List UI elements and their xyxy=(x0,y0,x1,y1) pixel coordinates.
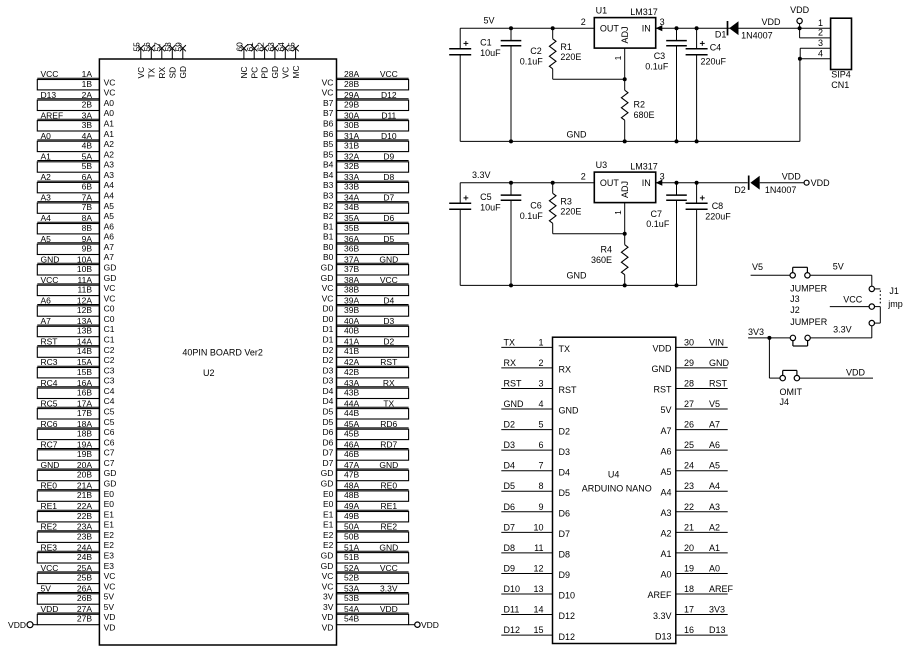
svg-text:42B: 42B xyxy=(344,367,359,377)
svg-text:D3: D3 xyxy=(323,376,334,386)
svg-text:D3: D3 xyxy=(559,447,571,457)
svg-text:R2: R2 xyxy=(634,100,646,110)
svg-text:VDD: VDD xyxy=(846,367,866,377)
svg-text:RST: RST xyxy=(504,379,523,389)
svg-text:VD: VD xyxy=(104,623,116,633)
svg-text:A1: A1 xyxy=(709,543,720,553)
svg-text:64: 64 xyxy=(276,42,286,52)
svg-text:D10: D10 xyxy=(504,584,521,594)
svg-text:C5: C5 xyxy=(104,407,115,417)
svg-text:D8: D8 xyxy=(383,172,394,182)
svg-text:3A: 3A xyxy=(82,110,93,120)
svg-text:VDD: VDD xyxy=(811,178,831,188)
svg-text:10uF: 10uF xyxy=(480,202,501,212)
svg-text:A5: A5 xyxy=(41,234,52,244)
svg-text:E1: E1 xyxy=(323,509,334,519)
svg-text:29A: 29A xyxy=(344,90,359,100)
svg-text:25B: 25B xyxy=(77,573,92,583)
svg-text:33B: 33B xyxy=(344,182,359,192)
svg-text:D5: D5 xyxy=(504,481,516,491)
svg-text:RD7: RD7 xyxy=(380,440,397,450)
svg-text:B7: B7 xyxy=(323,108,334,118)
svg-text:A4: A4 xyxy=(41,213,52,223)
svg-text:E0: E0 xyxy=(104,499,115,509)
svg-text:RX: RX xyxy=(157,66,167,78)
svg-text:E3: E3 xyxy=(104,561,115,571)
svg-text:VDD: VDD xyxy=(652,344,672,354)
svg-text:GND: GND xyxy=(504,399,525,409)
svg-text:RC5: RC5 xyxy=(41,398,58,408)
svg-text:RE1: RE1 xyxy=(381,501,398,511)
svg-text:22: 22 xyxy=(684,502,694,512)
svg-text:RE2: RE2 xyxy=(381,522,398,532)
svg-text:R1: R1 xyxy=(560,42,572,52)
svg-text:47A: 47A xyxy=(344,460,359,470)
svg-text:16: 16 xyxy=(684,625,694,635)
svg-text:GD: GD xyxy=(321,479,334,489)
svg-text:40PIN BOARD Ver2: 40PIN BOARD Ver2 xyxy=(182,347,263,357)
svg-text:6B: 6B xyxy=(82,182,93,192)
svg-text:D2: D2 xyxy=(559,426,571,436)
svg-text:47B: 47B xyxy=(344,470,359,480)
svg-text:D12: D12 xyxy=(559,611,576,621)
svg-text:29B: 29B xyxy=(344,99,359,109)
svg-text:RST: RST xyxy=(559,385,578,395)
svg-text:RST: RST xyxy=(654,385,673,395)
svg-text:A0: A0 xyxy=(660,570,671,580)
svg-text:jmp: jmp xyxy=(887,299,903,309)
svg-text:VC: VC xyxy=(136,67,146,79)
svg-text:3.3V: 3.3V xyxy=(472,170,491,180)
svg-text:B6: B6 xyxy=(323,129,334,139)
svg-text:VDD: VDD xyxy=(41,604,59,614)
svg-text:VCC: VCC xyxy=(41,69,59,79)
svg-text:D13: D13 xyxy=(41,90,57,100)
svg-text:D8: D8 xyxy=(504,543,516,553)
svg-text:D6: D6 xyxy=(323,437,334,447)
svg-text:D13: D13 xyxy=(655,631,672,641)
svg-text:D11: D11 xyxy=(381,110,396,120)
svg-text:C2: C2 xyxy=(104,345,115,355)
svg-text:PC: PC xyxy=(249,67,259,79)
svg-text:MC: MC xyxy=(291,65,301,78)
svg-text:53A: 53A xyxy=(344,584,359,594)
svg-text:29: 29 xyxy=(684,358,694,368)
svg-text:GD: GD xyxy=(104,273,117,283)
svg-text:49A: 49A xyxy=(344,501,359,511)
svg-text:20B: 20B xyxy=(77,470,92,480)
svg-text:22A: 22A xyxy=(77,501,92,511)
svg-text:OUT: OUT xyxy=(600,178,620,188)
svg-text:GND: GND xyxy=(379,460,398,470)
svg-text:GND: GND xyxy=(379,254,398,264)
svg-text:A2: A2 xyxy=(660,529,671,539)
svg-text:JUMPER: JUMPER xyxy=(790,317,828,327)
svg-text:26B: 26B xyxy=(77,593,92,603)
svg-text:C4: C4 xyxy=(710,43,722,53)
svg-text:VDD: VDD xyxy=(762,17,782,27)
svg-text:A7: A7 xyxy=(104,252,115,262)
svg-text:45B: 45B xyxy=(344,429,359,439)
svg-text:D5: D5 xyxy=(323,417,334,427)
svg-text:C0: C0 xyxy=(104,314,115,324)
svg-text:GD: GD xyxy=(321,561,334,571)
svg-text:IN: IN xyxy=(642,178,651,188)
svg-text:VDD: VDD xyxy=(421,620,439,630)
svg-text:42A: 42A xyxy=(344,357,359,367)
svg-text:1: 1 xyxy=(818,18,823,28)
svg-text:19: 19 xyxy=(684,564,694,574)
svg-text:0.1uF: 0.1uF xyxy=(645,61,669,71)
svg-text:3.3V: 3.3V xyxy=(380,584,398,594)
svg-text:B0: B0 xyxy=(323,242,334,252)
svg-text:18A: 18A xyxy=(77,419,92,429)
svg-text:21B: 21B xyxy=(77,490,92,500)
svg-text:D10: D10 xyxy=(559,591,576,601)
svg-text:220E: 220E xyxy=(560,52,581,62)
svg-text:52B: 52B xyxy=(344,573,359,583)
svg-text:A5: A5 xyxy=(660,467,671,477)
svg-text:J2: J2 xyxy=(790,305,800,315)
svg-text:E0: E0 xyxy=(323,489,334,499)
svg-text:E0: E0 xyxy=(323,499,334,509)
svg-text:14B: 14B xyxy=(77,346,92,356)
svg-text:A2: A2 xyxy=(41,172,52,182)
svg-text:3V: 3V xyxy=(323,592,334,602)
svg-text:A5: A5 xyxy=(104,211,115,221)
svg-text:E3: E3 xyxy=(104,551,115,561)
svg-text:D0: D0 xyxy=(323,304,334,314)
svg-text:A5: A5 xyxy=(104,201,115,211)
svg-text:C4: C4 xyxy=(104,386,115,396)
svg-text:3B: 3B xyxy=(82,120,93,130)
svg-text:24B: 24B xyxy=(77,552,92,562)
svg-text:33A: 33A xyxy=(344,172,359,182)
svg-text:ARDUINO NANO: ARDUINO NANO xyxy=(582,483,652,493)
svg-text:10uF: 10uF xyxy=(480,48,501,58)
svg-text:VCC: VCC xyxy=(380,69,398,79)
svg-text:U3: U3 xyxy=(596,160,608,170)
svg-text:B5: B5 xyxy=(323,139,334,149)
svg-text:A2: A2 xyxy=(709,522,720,532)
svg-text:GD: GD xyxy=(104,479,117,489)
svg-text:E2: E2 xyxy=(104,540,115,550)
svg-text:7A: 7A xyxy=(82,193,93,203)
svg-text:A1: A1 xyxy=(41,152,52,162)
svg-text:C1: C1 xyxy=(480,38,492,48)
svg-text:43B: 43B xyxy=(344,387,359,397)
svg-text:3V3: 3V3 xyxy=(709,605,725,615)
svg-text:23A: 23A xyxy=(77,522,92,532)
svg-text:C3: C3 xyxy=(104,365,115,375)
svg-text:1N4007: 1N4007 xyxy=(765,185,797,195)
svg-text:220E: 220E xyxy=(560,207,581,217)
svg-text:J3: J3 xyxy=(790,294,800,304)
svg-text:RX: RX xyxy=(383,378,395,388)
svg-text:6A: 6A xyxy=(82,172,93,182)
svg-text:21A: 21A xyxy=(77,481,92,491)
svg-text:C7: C7 xyxy=(651,209,663,219)
svg-text:VD: VD xyxy=(322,623,334,633)
svg-text:680E: 680E xyxy=(634,110,655,120)
svg-text:VC: VC xyxy=(104,571,116,581)
svg-text:A6: A6 xyxy=(41,296,52,306)
svg-text:VCC: VCC xyxy=(380,275,398,285)
svg-text:E2: E2 xyxy=(323,540,334,550)
svg-text:1A: 1A xyxy=(82,69,93,79)
svg-text:9B: 9B xyxy=(82,243,93,253)
svg-text:D5: D5 xyxy=(559,488,571,498)
svg-text:B2: B2 xyxy=(323,201,334,211)
svg-text:VC: VC xyxy=(104,88,116,98)
svg-text:46B: 46B xyxy=(344,449,359,459)
svg-text:D3: D3 xyxy=(504,440,516,450)
svg-text:J4: J4 xyxy=(780,397,790,407)
svg-text:RE3: RE3 xyxy=(41,542,58,552)
svg-text:10: 10 xyxy=(533,522,543,532)
svg-text:D0: D0 xyxy=(323,314,334,324)
svg-text:GD: GD xyxy=(321,468,334,478)
svg-text:14A: 14A xyxy=(77,337,92,347)
svg-text:VC: VC xyxy=(104,581,116,591)
svg-text:43A: 43A xyxy=(344,378,359,388)
svg-text:D4: D4 xyxy=(383,296,394,306)
svg-text:65: 65 xyxy=(286,42,296,52)
svg-text:B0: B0 xyxy=(323,252,334,262)
svg-text:GND: GND xyxy=(652,364,673,374)
svg-text:R3: R3 xyxy=(560,196,572,206)
svg-text:D4: D4 xyxy=(323,386,334,396)
svg-text:15: 15 xyxy=(533,625,543,635)
svg-text:E1: E1 xyxy=(104,509,115,519)
svg-text:B6: B6 xyxy=(323,119,334,129)
svg-text:RC4: RC4 xyxy=(41,378,58,388)
svg-text:19A: 19A xyxy=(77,440,92,450)
svg-text:25: 25 xyxy=(684,440,694,450)
svg-text:1: 1 xyxy=(613,210,623,215)
svg-text:VC: VC xyxy=(322,283,334,293)
svg-text:22B: 22B xyxy=(77,511,92,521)
svg-text:8: 8 xyxy=(538,481,543,491)
svg-text:RD6: RD6 xyxy=(380,419,397,429)
svg-text:58: 58 xyxy=(163,42,173,52)
svg-text:C6: C6 xyxy=(104,437,115,447)
svg-text:D2: D2 xyxy=(323,355,334,365)
svg-text:A0: A0 xyxy=(104,98,115,108)
svg-text:E2: E2 xyxy=(104,530,115,540)
svg-text:49B: 49B xyxy=(344,511,359,521)
svg-text:D7: D7 xyxy=(323,458,334,468)
svg-text:NC: NC xyxy=(239,66,249,78)
svg-text:C4: C4 xyxy=(104,396,115,406)
svg-text:52A: 52A xyxy=(344,563,359,573)
svg-text:GND: GND xyxy=(41,254,60,264)
svg-text:RX: RX xyxy=(504,358,517,368)
svg-text:D4: D4 xyxy=(504,461,516,471)
svg-text:18B: 18B xyxy=(77,429,92,439)
svg-text:A3: A3 xyxy=(104,160,115,170)
svg-text:GD: GD xyxy=(321,263,334,273)
svg-text:A0: A0 xyxy=(104,108,115,118)
svg-text:54B: 54B xyxy=(344,614,359,624)
svg-text:44A: 44A xyxy=(344,398,359,408)
svg-text:D2: D2 xyxy=(323,345,334,355)
svg-text:D7: D7 xyxy=(559,529,571,539)
svg-text:RC3: RC3 xyxy=(41,357,58,367)
svg-text:D6: D6 xyxy=(559,509,571,519)
svg-text:VD: VD xyxy=(322,612,334,622)
svg-text:VD: VD xyxy=(104,612,116,622)
svg-text:16B: 16B xyxy=(77,387,92,397)
svg-text:A7: A7 xyxy=(660,426,671,436)
svg-text:23B: 23B xyxy=(77,531,92,541)
svg-text:6: 6 xyxy=(538,440,543,450)
svg-text:C7: C7 xyxy=(104,448,115,458)
svg-text:5V: 5V xyxy=(660,405,671,415)
svg-text:D9: D9 xyxy=(504,564,516,574)
svg-text:4A: 4A xyxy=(82,131,93,141)
svg-text:50A: 50A xyxy=(344,522,359,532)
svg-text:4B: 4B xyxy=(82,141,93,151)
svg-text:D1: D1 xyxy=(715,30,727,40)
svg-text:A4: A4 xyxy=(104,191,115,201)
svg-text:3V3: 3V3 xyxy=(748,327,764,337)
svg-text:53B: 53B xyxy=(344,593,359,603)
svg-text:RST: RST xyxy=(709,379,728,389)
svg-text:25A: 25A xyxy=(77,563,92,573)
svg-text:D7: D7 xyxy=(504,522,516,532)
svg-text:J1: J1 xyxy=(889,286,899,296)
svg-text:A0: A0 xyxy=(41,131,52,141)
svg-text:5V: 5V xyxy=(41,584,52,594)
svg-text:A2: A2 xyxy=(104,149,115,159)
svg-text:TX: TX xyxy=(146,67,156,78)
svg-text:C6: C6 xyxy=(104,427,115,437)
svg-text:VC: VC xyxy=(322,88,334,98)
svg-text:D10: D10 xyxy=(381,131,397,141)
svg-text:54A: 54A xyxy=(344,604,359,614)
svg-text:A6: A6 xyxy=(709,440,720,450)
svg-text:45A: 45A xyxy=(344,419,359,429)
svg-text:TX: TX xyxy=(559,344,571,354)
svg-text:D9: D9 xyxy=(383,152,394,162)
svg-text:17A: 17A xyxy=(77,398,92,408)
svg-text:7B: 7B xyxy=(82,202,93,212)
svg-text:13A: 13A xyxy=(77,316,92,326)
svg-text:LM317: LM317 xyxy=(630,7,658,17)
svg-text:3: 3 xyxy=(818,38,823,48)
svg-text:A6: A6 xyxy=(660,446,671,456)
svg-text:C7: C7 xyxy=(104,458,115,468)
svg-text:360E: 360E xyxy=(591,255,612,265)
svg-text:B2: B2 xyxy=(323,211,334,221)
svg-text:5: 5 xyxy=(538,420,543,430)
svg-text:27A: 27A xyxy=(77,604,92,614)
svg-text:C1: C1 xyxy=(104,335,115,345)
svg-text:18: 18 xyxy=(684,584,694,594)
svg-text:U4: U4 xyxy=(608,470,620,480)
svg-text:21: 21 xyxy=(684,522,694,532)
svg-text:57: 57 xyxy=(153,42,163,52)
svg-text:40A: 40A xyxy=(344,316,359,326)
svg-text:37A: 37A xyxy=(344,254,359,264)
svg-text:B1: B1 xyxy=(323,232,334,242)
svg-text:D11: D11 xyxy=(504,605,520,615)
svg-text:5B: 5B xyxy=(82,161,93,171)
svg-text:A7: A7 xyxy=(104,242,115,252)
svg-text:61: 61 xyxy=(245,42,255,52)
svg-text:41A: 41A xyxy=(344,337,359,347)
svg-text:RC6: RC6 xyxy=(41,419,58,429)
svg-text:220uF: 220uF xyxy=(701,57,727,67)
svg-text:B7: B7 xyxy=(323,98,334,108)
svg-text:1: 1 xyxy=(613,55,623,60)
svg-text:RC7: RC7 xyxy=(41,440,58,450)
svg-text:D12: D12 xyxy=(381,90,397,100)
svg-text:VC: VC xyxy=(104,283,116,293)
svg-text:V5: V5 xyxy=(752,262,763,272)
svg-text:3.3V: 3.3V xyxy=(833,324,852,334)
svg-text:A1: A1 xyxy=(104,119,115,129)
svg-text:31A: 31A xyxy=(344,131,359,141)
svg-text:12B: 12B xyxy=(77,305,92,315)
svg-text:31B: 31B xyxy=(344,141,359,151)
svg-text:35A: 35A xyxy=(344,213,359,223)
svg-text:D7: D7 xyxy=(323,448,334,458)
svg-text:C3: C3 xyxy=(654,51,666,61)
svg-text:A3: A3 xyxy=(660,508,671,518)
svg-text:TX: TX xyxy=(504,337,516,347)
svg-text:12: 12 xyxy=(533,564,543,574)
svg-text:14: 14 xyxy=(533,605,543,615)
svg-text:9A: 9A xyxy=(82,234,93,244)
svg-text:2: 2 xyxy=(581,17,586,27)
svg-text:A4: A4 xyxy=(709,481,720,491)
svg-text:0.1uF: 0.1uF xyxy=(646,219,670,229)
svg-text:A7: A7 xyxy=(709,420,720,430)
svg-text:B3: B3 xyxy=(323,191,334,201)
svg-text:39B: 39B xyxy=(344,305,359,315)
svg-text:28B: 28B xyxy=(344,79,359,89)
svg-text:U1: U1 xyxy=(596,6,608,16)
svg-text:0.1uF: 0.1uF xyxy=(520,57,544,67)
svg-text:GND: GND xyxy=(567,271,588,281)
svg-text:2: 2 xyxy=(538,358,543,368)
svg-text:IN: IN xyxy=(642,24,651,34)
svg-text:D4: D4 xyxy=(323,396,334,406)
svg-text:A3: A3 xyxy=(104,170,115,180)
svg-text:3: 3 xyxy=(538,379,543,389)
svg-text:A6: A6 xyxy=(104,221,115,231)
svg-text:1B: 1B xyxy=(82,79,93,89)
svg-text:OMIT: OMIT xyxy=(780,387,803,397)
svg-text:C0: C0 xyxy=(104,304,115,314)
svg-text:D7: D7 xyxy=(383,193,394,203)
svg-text:41B: 41B xyxy=(344,346,359,356)
svg-text:ADJ: ADJ xyxy=(620,181,630,198)
svg-text:GND: GND xyxy=(559,406,580,416)
svg-text:9: 9 xyxy=(538,502,543,512)
svg-text:A5: A5 xyxy=(709,461,720,471)
svg-text:20A: 20A xyxy=(77,460,92,470)
svg-text:GD: GD xyxy=(270,66,280,79)
svg-text:AREF: AREF xyxy=(709,584,734,594)
svg-text:220uF: 220uF xyxy=(705,211,731,221)
svg-text:C5: C5 xyxy=(480,192,492,202)
svg-text:4: 4 xyxy=(538,399,543,409)
svg-text:A2: A2 xyxy=(104,139,115,149)
svg-text:30B: 30B xyxy=(344,120,359,130)
